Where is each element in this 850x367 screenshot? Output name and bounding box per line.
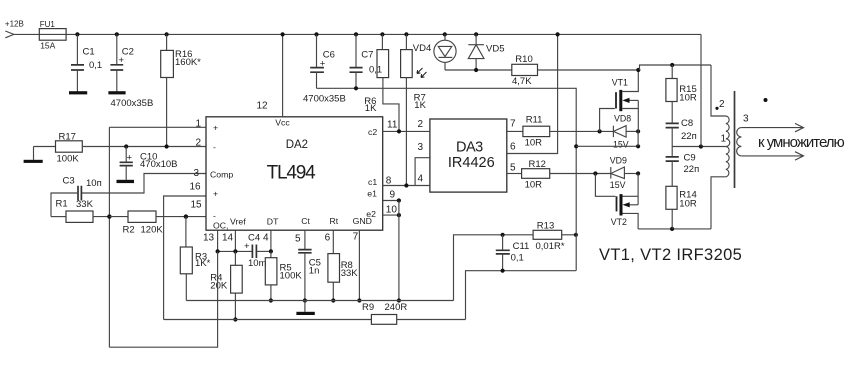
svg-text:e1: e1 xyxy=(367,188,377,198)
svg-text:VD9: VD9 xyxy=(610,156,627,166)
svg-text:C3: C3 xyxy=(63,176,75,187)
IC U-DA2 TL494 box xyxy=(206,117,383,230)
svg-text:14: 14 xyxy=(222,232,234,243)
svg-text:R9: R9 xyxy=(362,302,374,313)
resistor R13 xyxy=(533,230,562,239)
resistor R12 xyxy=(522,169,550,179)
svg-text:+: + xyxy=(213,189,218,199)
wire pin12 Vcc xyxy=(282,34,284,116)
svg-text:9: 9 xyxy=(390,189,396,200)
wire gnd row xyxy=(186,300,453,302)
wire pin1 row xyxy=(109,126,206,128)
svg-text:22п: 22п xyxy=(684,164,700,175)
wire DA3 pin5 to R12 xyxy=(507,173,522,175)
svg-text:R10: R10 xyxy=(515,54,532,65)
svg-text:10: 10 xyxy=(386,204,398,215)
wire TL494 pin14 stub xyxy=(234,230,236,251)
svg-text:2: 2 xyxy=(196,138,202,149)
svg-text:10п: 10п xyxy=(86,178,102,189)
svg-text:VD5: VD5 xyxy=(486,43,504,54)
ground (R17) xyxy=(24,160,43,163)
svg-text:1: 1 xyxy=(721,134,727,145)
resistor R3 xyxy=(185,217,187,247)
capacitor C9 xyxy=(671,147,673,157)
resistor R9 xyxy=(371,315,396,325)
svg-text:к умножителю: к умножителю xyxy=(758,134,845,151)
svg-text:2: 2 xyxy=(418,119,424,130)
wire C6/C7 bottom row to sense node xyxy=(317,87,577,89)
wire pin2 row xyxy=(83,146,206,148)
zener VD8 xyxy=(612,126,614,137)
wire output top with arrow xyxy=(741,123,803,131)
capacitor C6 xyxy=(314,32,318,36)
svg-text:+: + xyxy=(213,123,218,133)
wire transformer centre row xyxy=(672,146,726,148)
svg-text:C7: C7 xyxy=(361,50,373,61)
wire e1 pin9 xyxy=(383,200,399,202)
ground (C2) xyxy=(108,91,125,94)
wire VT1 drain row to transformer top xyxy=(640,65,712,70)
svg-text:+12В: +12В xyxy=(5,19,24,28)
wire pin1 vertical (feedback node) xyxy=(108,127,110,347)
svg-text:1: 1 xyxy=(196,118,202,129)
wire pin13/14 row xyxy=(218,250,253,252)
capacitor C4 xyxy=(252,245,256,259)
resistor R10 xyxy=(512,64,538,75)
svg-text:Ct: Ct xyxy=(301,216,310,226)
svg-text:10R: 10R xyxy=(525,179,543,190)
svg-text:-: - xyxy=(213,142,216,152)
wire e2 pin10 xyxy=(383,214,399,216)
svg-text:R13: R13 xyxy=(537,220,554,231)
ground (C1) xyxy=(69,91,87,94)
wire sense vertical xyxy=(575,88,577,271)
node pin15/R3 junction xyxy=(184,214,188,218)
svg-text:DA2: DA2 xyxy=(286,139,308,151)
svg-text:16: 16 xyxy=(190,182,202,193)
svg-text:VD8: VD8 xyxy=(614,113,631,123)
capacitor C5 xyxy=(304,230,306,249)
svg-text:Vcc: Vcc xyxy=(275,118,290,128)
svg-text:0,1: 0,1 xyxy=(89,60,102,71)
svg-text:4,7K: 4,7K xyxy=(512,76,532,87)
capacitor C11 xyxy=(501,233,505,237)
svg-text:Comp: Comp xyxy=(210,169,233,179)
svg-text:10m: 10m xyxy=(248,258,267,269)
svg-text:6: 6 xyxy=(325,232,331,243)
resistor R16 xyxy=(165,32,169,36)
svg-text:R11: R11 xyxy=(526,114,543,125)
node input arrow xyxy=(5,31,14,38)
wire DA3 pin7 to R11 xyxy=(507,130,523,132)
IC U-DA3 IR4426 box xyxy=(430,119,507,192)
svg-text:15: 15 xyxy=(191,199,203,210)
svg-text:c1: c1 xyxy=(368,177,377,187)
svg-text:240R: 240R xyxy=(385,302,408,313)
svg-text:4700х35В: 4700х35В xyxy=(303,93,346,104)
svg-text:Vref: Vref xyxy=(230,216,246,226)
svg-text:100K: 100K xyxy=(57,154,80,165)
resistor R17 xyxy=(34,146,56,148)
wire output bottom with arrow xyxy=(741,152,803,160)
ground (C10) xyxy=(117,180,135,183)
svg-text:VT2: VT2 xyxy=(611,217,627,227)
wire pin7 GND stub xyxy=(358,230,360,300)
svg-text:+: + xyxy=(127,153,133,164)
svg-text:33K: 33K xyxy=(341,268,359,279)
wire rail rises to C11 bottom row xyxy=(466,271,576,320)
svg-text:7: 7 xyxy=(510,119,516,130)
svg-text:3: 3 xyxy=(418,142,424,153)
wire pins 9/10 down to gnd row xyxy=(398,201,400,301)
svg-text:-: - xyxy=(213,211,216,221)
transformer T1 primary xyxy=(711,65,726,116)
svg-text:Rt: Rt xyxy=(330,216,339,226)
svg-text:R17: R17 xyxy=(59,132,76,143)
svg-text:0,01R*: 0,01R* xyxy=(536,241,565,252)
svg-text:15V: 15V xyxy=(610,180,626,190)
svg-text:VT1, VT2 IRF3205: VT1, VT2 IRF3205 xyxy=(599,246,742,264)
svg-text:R2: R2 xyxy=(123,225,135,236)
resistor R6 xyxy=(380,32,384,36)
wire pin16 elbow and long vertical xyxy=(164,196,206,320)
resistor R4 xyxy=(234,251,236,265)
resistor R8 xyxy=(332,230,334,253)
node R1/R2 junction xyxy=(107,214,111,218)
fuse FU1 xyxy=(39,29,66,41)
svg-text:OC,: OC, xyxy=(213,220,228,230)
svg-text:13: 13 xyxy=(203,232,215,243)
capacitor C2 xyxy=(115,32,119,36)
capacitor C10 xyxy=(124,144,128,148)
svg-text:22п: 22п xyxy=(681,131,697,142)
svg-text:4: 4 xyxy=(263,232,269,243)
resistor R11 xyxy=(523,126,550,136)
svg-text:1K*: 1K* xyxy=(195,258,211,269)
wire VD4/VD5 cathode row xyxy=(445,69,512,71)
resistor R1 xyxy=(51,216,66,218)
svg-text:C9: C9 xyxy=(684,153,696,164)
wire c1 to DA3 pins 3+4 xyxy=(383,185,430,187)
svg-text:C4: C4 xyxy=(248,232,260,243)
svg-text:FU1: FU1 xyxy=(40,20,56,29)
svg-text:DT: DT xyxy=(267,216,279,226)
wire pin3 Comp elbow xyxy=(81,174,206,194)
svg-text:1K: 1K xyxy=(365,103,377,114)
svg-text:11: 11 xyxy=(387,120,398,131)
diode VD5 xyxy=(474,32,478,36)
svg-text:15A: 15A xyxy=(40,41,55,51)
wire bottom rail (pin16 sense rail) xyxy=(164,319,372,321)
svg-text:1n: 1n xyxy=(309,266,320,277)
wire TL494 pin13 stub xyxy=(217,230,219,251)
svg-text:120K: 120K xyxy=(141,225,164,236)
wire +12 rail corner down to centre tap xyxy=(700,34,702,146)
svg-text:C1: C1 xyxy=(83,47,95,58)
svg-text:10R: 10R xyxy=(525,137,543,148)
svg-text:33K: 33K xyxy=(76,199,94,210)
svg-text:6: 6 xyxy=(510,142,516,153)
wire DA3 pin6 Vcc xyxy=(507,34,558,153)
svg-text:c2: c2 xyxy=(368,127,377,137)
svg-text:10R: 10R xyxy=(679,92,697,103)
capacitor C7 xyxy=(354,32,358,36)
node secondary polarity dot xyxy=(764,98,768,102)
svg-text:2: 2 xyxy=(719,99,725,110)
svg-text:3: 3 xyxy=(194,168,200,179)
svg-text:100K: 100K xyxy=(280,270,303,281)
wire VT2 drain row to transformer bottom xyxy=(638,228,711,230)
resistor R2 xyxy=(109,216,128,218)
svg-text:+: + xyxy=(119,55,125,66)
svg-text:4: 4 xyxy=(418,173,424,184)
wire OC pin13 detour xyxy=(109,251,217,347)
svg-text:+: + xyxy=(320,58,326,69)
svg-text:160K*: 160K* xyxy=(175,57,201,68)
svg-text:470х10В: 470х10В xyxy=(140,159,178,170)
wire TL494 pin4 stub xyxy=(270,230,272,251)
wire c2 to DA3 pin2 xyxy=(383,130,430,132)
svg-text:5: 5 xyxy=(510,162,516,173)
svg-text:e2: e2 xyxy=(366,209,376,219)
transformer T1 secondary xyxy=(737,128,742,156)
svg-text:8: 8 xyxy=(386,175,392,186)
svg-text:5: 5 xyxy=(295,234,301,245)
capacitor C8 xyxy=(666,123,679,127)
svg-text:IR4426: IR4426 xyxy=(448,155,495,171)
LED VD4 emission arrows xyxy=(417,68,423,74)
wire VT1/VT2 source row xyxy=(576,145,638,147)
svg-text:20K: 20K xyxy=(210,281,228,292)
svg-text:15V: 15V xyxy=(613,140,629,150)
svg-text:0,1: 0,1 xyxy=(369,64,382,75)
LED VD4 xyxy=(443,32,447,36)
ground (C5) xyxy=(304,301,306,312)
svg-text:3: 3 xyxy=(743,113,749,124)
wire main +12V rail xyxy=(14,33,701,35)
svg-text:VD4: VD4 xyxy=(413,43,431,54)
svg-text:TL494: TL494 xyxy=(267,162,317,183)
wire gnd row rises to R13 row xyxy=(454,235,534,301)
capacitor C1 xyxy=(75,32,79,36)
svg-text:0,1: 0,1 xyxy=(511,253,524,264)
svg-text:C11: C11 xyxy=(513,241,530,252)
resistor R15 xyxy=(671,65,673,79)
svg-text:R1: R1 xyxy=(56,199,68,210)
svg-text:DA3: DA3 xyxy=(456,139,483,155)
svg-text:R12: R12 xyxy=(529,159,546,170)
zener VD9 xyxy=(610,167,612,179)
svg-text:VT1: VT1 xyxy=(612,77,628,87)
resistor R7 xyxy=(404,32,408,36)
svg-text:1K: 1K xyxy=(414,100,426,111)
capacitor C3 xyxy=(78,186,81,201)
svg-text:7: 7 xyxy=(353,232,359,243)
resistor R5 xyxy=(270,251,272,257)
svg-text:C8: C8 xyxy=(681,118,693,129)
resistor R14 xyxy=(666,186,677,209)
svg-text:12: 12 xyxy=(257,100,269,111)
svg-text:4700х35В: 4700х35В xyxy=(111,98,154,109)
svg-text:10R: 10R xyxy=(679,198,697,209)
transformer core xyxy=(734,91,736,188)
